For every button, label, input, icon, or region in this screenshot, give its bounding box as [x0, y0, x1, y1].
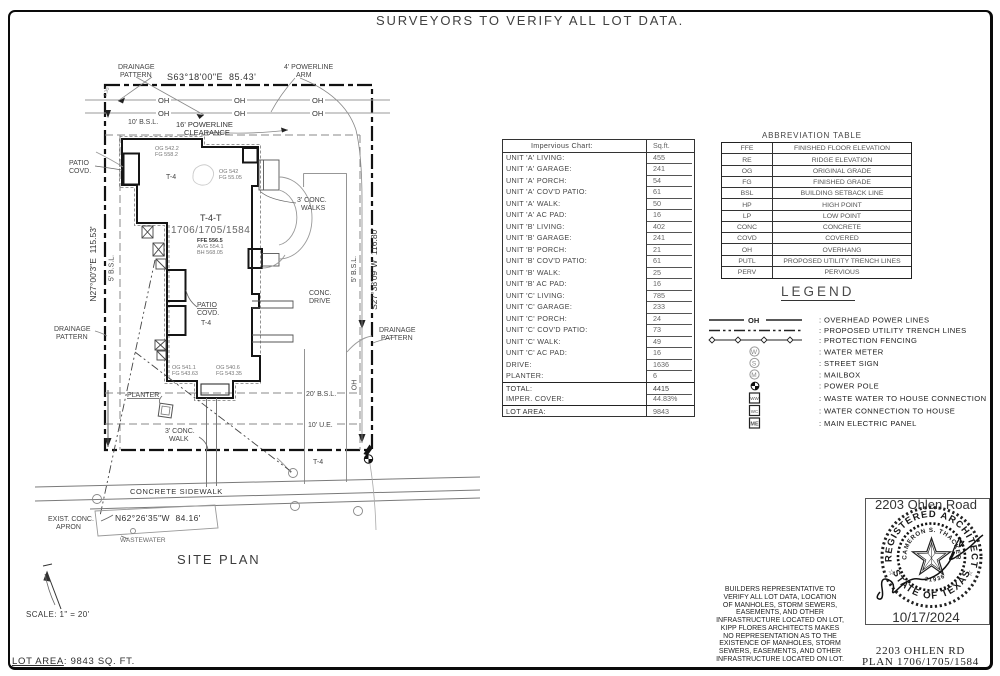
svg-text:T-4: T-4 — [313, 459, 323, 466]
svg-text:WALK: WALK — [169, 436, 189, 443]
svg-text:☆: ☆ — [966, 569, 973, 578]
svg-text:: WASTE WATER TO HOUSE CONNECT: : WASTE WATER TO HOUSE CONNECTION — [819, 394, 986, 403]
svg-text:5' B.S.L.: 5' B.S.L. — [109, 255, 116, 281]
svg-text:WC: WC — [751, 409, 759, 414]
svg-text:OH: OH — [158, 96, 169, 105]
svg-text:3' CONC.: 3' CONC. — [165, 428, 195, 435]
svg-text:1.35: 1.35 — [102, 86, 111, 97]
svg-text:DRAINAGE: DRAINAGE — [118, 64, 155, 71]
svg-text:PATTERN: PATTERN — [56, 334, 88, 341]
svg-text:WASTEWATER: WASTEWATER — [120, 537, 166, 544]
svg-text:BH 568.05: BH 568.05 — [197, 250, 223, 256]
svg-text:: MAILBOX: : MAILBOX — [819, 371, 861, 380]
svg-text:: PROPOSED UTILITY TRENCH LINE: : PROPOSED UTILITY TRENCH LINES — [819, 326, 967, 335]
svg-text:EXIST. CONC.: EXIST. CONC. — [48, 516, 94, 523]
svg-text:: OVERHEAD POWER LINES: : OVERHEAD POWER LINES — [819, 316, 930, 325]
svg-text:10' B.S.L.: 10' B.S.L. — [128, 119, 158, 126]
svg-text:OH: OH — [312, 109, 323, 118]
svg-text:CLEARANCE: CLEARANCE — [184, 128, 230, 137]
svg-text:CONCRETE SIDEWALK: CONCRETE SIDEWALK — [130, 487, 223, 496]
svg-text:ARM: ARM — [296, 72, 312, 79]
svg-text:T-4: T-4 — [166, 174, 176, 181]
svg-text:OH: OH — [748, 316, 759, 325]
svg-text:OH: OH — [234, 96, 245, 105]
svg-text:FG 558.2: FG 558.2 — [155, 152, 178, 158]
svg-text:CONC.: CONC. — [309, 290, 332, 297]
svg-text:4' POWERLINE: 4' POWERLINE — [284, 64, 334, 71]
svg-text:COVD.: COVD. — [197, 310, 219, 317]
svg-text:1706/1705/1584: 1706/1705/1584 — [171, 225, 250, 236]
svg-text:COVD.: COVD. — [69, 168, 91, 175]
svg-text:S: S — [752, 361, 757, 368]
svg-text:FG 543.63: FG 543.63 — [172, 371, 198, 377]
svg-text:M: M — [751, 372, 756, 379]
svg-text:N27°00'3"E 115.53': N27°00'3"E 115.53' — [88, 226, 98, 302]
svg-text:DRIVE: DRIVE — [309, 298, 331, 305]
svg-text:S63°18'00"E 85.43': S63°18'00"E 85.43' — [167, 72, 256, 82]
svg-text:T-4-T: T-4-T — [200, 213, 222, 223]
svg-text:3' CONC.: 3' CONC. — [297, 197, 327, 204]
svg-text:10' U.E.: 10' U.E. — [308, 422, 333, 429]
svg-text:WW: WW — [750, 396, 759, 401]
svg-text:: STREET SIGN: : STREET SIGN — [819, 359, 879, 368]
svg-text:N62°26'35"W 84.16': N62°26'35"W 84.16' — [115, 513, 201, 523]
svg-text:WALKS: WALKS — [301, 205, 326, 212]
svg-text:: MAIN ELECTRIC PANEL: : MAIN ELECTRIC PANEL — [819, 419, 917, 428]
svg-text:5' B.S.L.: 5' B.S.L. — [351, 256, 358, 282]
svg-text:T-4: T-4 — [201, 320, 211, 327]
svg-text:PATTERN: PATTERN — [381, 335, 413, 342]
svg-text:OH: OH — [312, 96, 323, 105]
svg-text:OH: OH — [234, 109, 245, 118]
svg-text:OH: OH — [352, 380, 359, 391]
svg-text:DRAINAGE: DRAINAGE — [54, 326, 91, 333]
svg-text:DRAINAGE: DRAINAGE — [379, 327, 416, 334]
svg-text:W: W — [751, 349, 758, 356]
svg-text:: WATER METER: : WATER METER — [819, 348, 884, 357]
svg-text:PATIO: PATIO — [197, 302, 218, 309]
svg-text:PATIO: PATIO — [69, 160, 90, 167]
svg-text:APRON: APRON — [56, 524, 81, 531]
svg-text:20' B.S.L.: 20' B.S.L. — [306, 391, 336, 398]
svg-text:OH: OH — [158, 109, 169, 118]
svg-text:FG 55.05: FG 55.05 — [219, 175, 242, 181]
svg-text:FG 543.35: FG 543.35 — [216, 371, 242, 377]
svg-text:S27°38'09"W 116.80': S27°38'09"W 116.80' — [369, 228, 379, 310]
svg-text:☆: ☆ — [888, 568, 895, 577]
svg-text:: PROTECTION FENCING: : PROTECTION FENCING — [819, 336, 917, 345]
svg-text:PLANTER: PLANTER — [127, 392, 159, 399]
svg-text:: POWER POLE: : POWER POLE — [819, 382, 879, 391]
svg-text:ME: ME — [750, 422, 759, 428]
svg-text:: WATER CONNECTION TO HOUSE: : WATER CONNECTION TO HOUSE — [819, 407, 955, 416]
svg-text:PATTERN: PATTERN — [120, 72, 152, 79]
